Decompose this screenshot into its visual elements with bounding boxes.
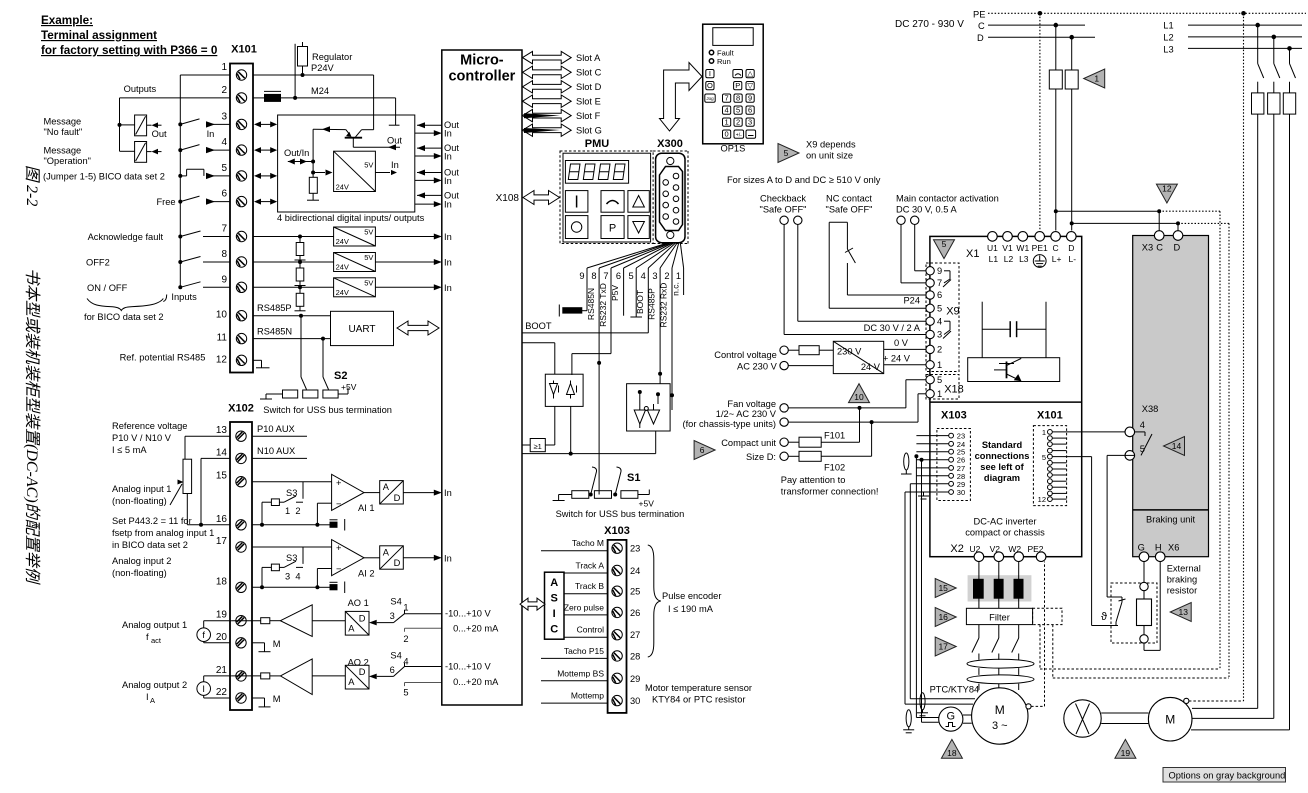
- callout 5 + note: [778, 144, 799, 163]
- svg-text:AC 230 V: AC 230 V: [737, 361, 778, 371]
- analog input 2 op-amp: [252, 546, 332, 548]
- svg-text:on unit size: on unit size: [806, 151, 853, 161]
- svg-text:5V: 5V: [364, 228, 373, 237]
- svg-text:Switch for USS bus termination: Switch for USS bus termination: [263, 405, 392, 415]
- svg-text:P: P: [735, 81, 740, 90]
- X101r pin 1: [1048, 430, 1053, 435]
- svg-text:Compact unit: Compact unit: [721, 438, 776, 448]
- X300 dashed outline: [653, 150, 688, 152]
- PTC wires to motor: [910, 698, 975, 700]
- svg-text:L1: L1: [1163, 21, 1173, 31]
- wire 5 ground: [635, 268, 637, 317]
- X103 pin 29: [949, 481, 954, 486]
- svg-text:Run: Run: [717, 57, 731, 66]
- X101 pin 4: [236, 145, 246, 155]
- svg-text:In: In: [391, 160, 399, 170]
- svg-text:X6: X6: [1168, 543, 1179, 553]
- svg-text:3: 3: [221, 111, 227, 122]
- cap to chassis AI1: [317, 524, 329, 526]
- svg-text:A: A: [383, 547, 390, 557]
- NC contact wiring: [829, 221, 847, 223]
- svg-text:C: C: [1053, 243, 1059, 253]
- wire row14 to row16: [201, 457, 230, 459]
- svg-text:Control voltage: Control voltage: [714, 350, 777, 360]
- X101 pin 2: [236, 93, 246, 103]
- svg-text:9: 9: [748, 93, 752, 102]
- wires X103 left: [541, 550, 608, 552]
- svg-text:4: 4: [725, 105, 729, 114]
- svg-text:Size D:: Size D:: [746, 452, 776, 462]
- LEDs: [709, 50, 713, 54]
- X103 pin 24: [612, 565, 622, 575]
- svg-text:Out/In: Out/In: [284, 148, 309, 158]
- svg-text:5: 5: [784, 148, 789, 158]
- svg-text:see left of: see left of: [980, 462, 1024, 472]
- svg-text:M: M: [273, 694, 281, 704]
- svg-text:9: 9: [221, 274, 227, 285]
- svg-text:O: O: [707, 81, 713, 90]
- meter I: [197, 682, 211, 696]
- X38 switch: [1135, 431, 1145, 433]
- svg-text:X1: X1: [966, 248, 979, 260]
- X102 pin 20: [236, 638, 246, 648]
- checkback terminals: [780, 216, 788, 224]
- bidirectional I/O box: [278, 115, 415, 212]
- svg-text:书本型或装机装柜型装置(DC-AC)的配置举例: 书本型或装机装柜型装置(DC-AC)的配置举例: [23, 268, 41, 586]
- svg-text:Checkback: Checkback: [760, 194, 806, 204]
- svg-text:24 V: 24 V: [861, 362, 881, 372]
- X18 connector: [926, 375, 959, 400]
- svg-text:19: 19: [216, 610, 228, 621]
- svg-text:Tacho M: Tacho M: [572, 538, 604, 548]
- pull resistor: [312, 173, 314, 178]
- svg-text:In: In: [444, 283, 452, 293]
- svg-text:Slot A: Slot A: [576, 53, 601, 63]
- svg-text:In: In: [444, 488, 452, 498]
- svg-text:fsetp from analog input 1: fsetp from analog input 1: [112, 528, 214, 538]
- svg-text:Control: Control: [577, 625, 605, 635]
- svg-text:5V: 5V: [364, 278, 373, 287]
- X103 pin 30: [949, 490, 954, 495]
- svg-text:10: 10: [854, 392, 864, 402]
- svg-text:Jog: Jog: [706, 96, 714, 101]
- svg-text:Pay attention to: Pay attention to: [781, 475, 846, 485]
- svg-text:Standard: Standard: [982, 440, 1023, 450]
- svg-text:Mottemp: Mottemp: [571, 691, 604, 701]
- svg-text:2: 2: [937, 345, 942, 355]
- X103 pin 26: [949, 457, 954, 462]
- svg-text:D: D: [1174, 243, 1181, 253]
- svg-text:Track A: Track A: [576, 561, 605, 571]
- X103 pin 25: [612, 586, 622, 596]
- svg-text:X18: X18: [944, 384, 964, 396]
- svg-text:ϑ: ϑ: [1101, 611, 1107, 623]
- svg-text:4: 4: [1140, 420, 1145, 430]
- svg-text:In: In: [444, 176, 452, 186]
- M24 inductor: [253, 97, 264, 99]
- svg-text:D: D: [1068, 243, 1074, 253]
- M24 T-stub: [395, 123, 397, 125]
- svg-text:compact or chassis: compact or chassis: [965, 528, 1045, 538]
- X103 pin 28: [612, 651, 622, 661]
- bidir arrow: [258, 149, 273, 151]
- svg-text:F101: F101: [824, 431, 845, 441]
- X102 pin 14: [236, 453, 246, 463]
- svg-text:23: 23: [630, 544, 640, 554]
- svg-text:S1: S1: [627, 472, 640, 484]
- svg-text:Fan voltage: Fan voltage: [727, 399, 776, 409]
- svg-text:6: 6: [748, 105, 752, 114]
- svg-text:7: 7: [603, 271, 608, 281]
- svg-text:in BICO data set 2: in BICO data set 2: [112, 540, 188, 550]
- X102 pin 15: [236, 477, 246, 487]
- converter 5V/24V big: [313, 172, 325, 174]
- svg-text:For sizes A to D and DC ≥ 510: For sizes A to D and DC ≥ 510 V only: [727, 175, 881, 185]
- svg-text:P: P: [609, 223, 616, 235]
- svg-text:Mottemp BS: Mottemp BS: [557, 668, 604, 678]
- svg-text:Main contactor activation: Main contactor activation: [896, 194, 999, 204]
- X1 terminal C: [1051, 232, 1061, 242]
- X1 terminal D: [1067, 232, 1077, 242]
- braking unit gray box: [1133, 236, 1209, 557]
- power converter box: [930, 236, 1082, 556]
- svg-text:5V: 5V: [364, 253, 373, 262]
- switch input row y124.4: [178, 122, 182, 126]
- svg-text:M: M: [273, 639, 281, 649]
- X101r pin 9: [1048, 479, 1053, 484]
- coupling fan-motor: [1101, 712, 1148, 714]
- svg-text:PE1: PE1: [1032, 243, 1048, 253]
- X9 pin 5: [926, 304, 934, 312]
- G wires: [916, 717, 938, 719]
- D/A box AO2: [345, 665, 369, 689]
- svg-text:for factory setting with P366: for factory setting with P366 = 0: [41, 44, 218, 57]
- cap to chassis AI2: [317, 586, 329, 588]
- svg-text:Slot E: Slot E: [576, 97, 601, 107]
- X1 terminal U1: [988, 232, 998, 242]
- svg-text:5: 5: [937, 304, 942, 314]
- X101 connector dotted box: [1033, 426, 1066, 506]
- svg-text:M: M: [995, 703, 1005, 717]
- X101 pin 7: [236, 231, 246, 241]
- svg-text:-10...+10 V: -10...+10 V: [445, 609, 492, 619]
- svg-text:6: 6: [700, 445, 705, 455]
- svg-text:N10 AUX: N10 AUX: [257, 446, 295, 456]
- svg-text:G: G: [947, 711, 956, 723]
- svg-text:≥1: ≥1: [534, 442, 542, 451]
- svg-text:Slot G: Slot G: [576, 126, 602, 136]
- svg-text:controller: controller: [448, 69, 515, 85]
- svg-text:6: 6: [390, 665, 395, 675]
- X101 pin 12: [236, 355, 246, 365]
- optocoupler box 1: [522, 342, 555, 344]
- svg-text:Message: Message: [44, 146, 82, 156]
- svg-text:f: f: [146, 632, 149, 642]
- svg-text:Motor temperature sensor: Motor temperature sensor: [645, 683, 752, 693]
- svg-text:27: 27: [630, 630, 640, 640]
- X101r pin 12: [1048, 497, 1053, 502]
- svg-text:C: C: [978, 21, 985, 31]
- svg-text:2: 2: [221, 85, 227, 96]
- svg-text:A: A: [550, 577, 558, 589]
- svg-text:X103: X103: [604, 525, 630, 537]
- X103 pin 27: [612, 630, 622, 640]
- svg-text:PMU: PMU: [585, 138, 610, 150]
- PE dashed to right motor: [1184, 698, 1189, 703]
- UART box: [331, 311, 394, 345]
- svg-text:10: 10: [216, 310, 228, 321]
- svg-text:connections: connections: [975, 451, 1030, 461]
- long wire to opto2: [522, 453, 656, 455]
- svg-text:1/2~ AC 230 V: 1/2~ AC 230 V: [716, 409, 777, 419]
- svg-text:(non-floating): (non-floating): [112, 568, 167, 578]
- PE dotted vertical right: [1243, 13, 1245, 701]
- svg-text:AO 1: AO 1: [348, 598, 369, 608]
- svg-text:−: −: [336, 499, 341, 509]
- X101 pin 8: [236, 257, 246, 267]
- X103 connector dotted box: [937, 429, 971, 501]
- bidir arrow: [258, 201, 273, 203]
- callout 5 inside: [934, 240, 955, 259]
- out line: [352, 138, 354, 148]
- svg-text:In: In: [444, 129, 452, 139]
- svg-text:X108: X108: [496, 193, 520, 204]
- svg-text:P24V: P24V: [311, 63, 335, 73]
- PE dotted vertical to PE1: [1039, 13, 1041, 230]
- meter f: [197, 628, 211, 642]
- svg-text:S: S: [551, 593, 558, 605]
- svg-text:"Safe OFF": "Safe OFF": [760, 205, 807, 215]
- L wires into right motor: [1192, 707, 1258, 709]
- X102 pin 22: [236, 693, 246, 703]
- svg-text:DC-AC inverter: DC-AC inverter: [973, 517, 1036, 527]
- X101r pin 8: [1048, 473, 1053, 478]
- X102 pin 13: [236, 431, 246, 441]
- svg-text:Regulator: Regulator: [312, 52, 352, 62]
- svg-text:18: 18: [216, 576, 228, 587]
- motor phase wires U2 V2 W2: [978, 562, 980, 609]
- X101 pin 6: [236, 196, 246, 206]
- svg-text:21: 21: [216, 665, 228, 676]
- main contactor wires: [900, 225, 902, 283]
- svg-text:13: 13: [216, 425, 228, 436]
- svg-text:12: 12: [216, 354, 228, 365]
- svg-text:"No fault": "No fault": [44, 127, 83, 137]
- svg-text:M24: M24: [311, 86, 329, 96]
- DC option dashed loops: [1039, 625, 1041, 669]
- svg-text:S4: S4: [390, 597, 401, 607]
- P24/M24 stubs up: [294, 44, 296, 98]
- svg-text:L3: L3: [1019, 254, 1029, 264]
- X101 pin 3: [236, 119, 246, 129]
- svg-text:resistor: resistor: [1167, 586, 1197, 596]
- svg-text:Terminal assignment: Terminal assignment: [41, 29, 157, 42]
- IGBT inverter box: [968, 358, 1060, 382]
- X9 pin 6: [926, 291, 934, 299]
- svg-text:9: 9: [579, 271, 584, 281]
- svg-text:3: 3: [937, 330, 942, 340]
- input converter row y287.3: [253, 286, 334, 288]
- svg-text:1: 1: [676, 271, 681, 281]
- svg-text:20: 20: [216, 632, 228, 643]
- pulse encoder brace: [648, 545, 661, 657]
- svg-text:25: 25: [630, 587, 640, 597]
- svg-text:Out: Out: [152, 129, 167, 139]
- X102 pin 21: [236, 671, 246, 681]
- svg-text:L-: L-: [1069, 254, 1077, 264]
- X101 pin 9: [236, 282, 246, 292]
- main contactor terminals: [897, 216, 905, 224]
- optocoupler box 2: [627, 384, 671, 431]
- svg-text:7: 7: [725, 93, 729, 102]
- svg-text:L2: L2: [1163, 33, 1173, 43]
- svg-text:11: 11: [217, 333, 228, 344]
- svg-text:X101: X101: [231, 44, 257, 56]
- svg-text:for BICO data set 2: for BICO data set 2: [84, 312, 164, 322]
- svg-text:Slot C: Slot C: [576, 68, 602, 78]
- svg-text:Slot D: Slot D: [576, 82, 602, 92]
- svg-text:Track B: Track B: [575, 581, 604, 591]
- X103 pin 23: [949, 433, 954, 438]
- X9 pin 1: [926, 361, 934, 369]
- wire 2 RS232RxD: [671, 268, 673, 410]
- svg-text:D: D: [394, 558, 401, 568]
- wire 7 RS232TxD: [610, 268, 612, 354]
- svg-text:+ 24 V: + 24 V: [883, 354, 911, 364]
- svg-text:19: 19: [1121, 748, 1131, 758]
- svg-text:0...+20 mA: 0...+20 mA: [453, 677, 499, 687]
- svg-text:D: D: [977, 33, 984, 43]
- X102 pin 19: [236, 616, 246, 626]
- fuse F102: [788, 455, 799, 457]
- DC link capacitor: [981, 302, 983, 358]
- svg-text:+: +: [336, 478, 341, 488]
- transistor inside: [345, 137, 362, 139]
- X101r pin 6: [1048, 460, 1053, 465]
- svg-text:In: In: [207, 129, 215, 139]
- svg-text:Slot F: Slot F: [576, 111, 601, 121]
- svg-text:I: I: [202, 684, 205, 694]
- svg-text:+5V: +5V: [639, 499, 655, 509]
- microcontroller U1: [442, 50, 522, 705]
- svg-text:W1: W1: [1016, 243, 1029, 253]
- svg-text:6: 6: [221, 189, 227, 200]
- svg-text:"Safe OFF": "Safe OFF": [826, 205, 873, 215]
- X103 pin 26: [612, 607, 622, 617]
- svg-text:Message: Message: [44, 117, 82, 127]
- svg-text:I: I: [709, 69, 711, 78]
- X9 pin 3: [926, 330, 934, 338]
- svg-text:P10 AUX: P10 AUX: [257, 424, 295, 434]
- svg-text:L+: L+: [1052, 254, 1062, 264]
- X1 terminal PE1: [1035, 232, 1045, 242]
- svg-text:22: 22: [216, 687, 228, 698]
- svg-text:24V: 24V: [336, 237, 349, 246]
- svg-text:(Jumper 1-5) BICO data set 2: (Jumper 1-5) BICO data set 2: [43, 172, 165, 182]
- svg-text:UART: UART: [348, 324, 375, 335]
- svg-text:A: A: [348, 623, 355, 633]
- svg-text:4 bidirectional digital inputs: 4 bidirectional digital inputs/ outputs: [277, 213, 425, 223]
- svg-text:-10...+10 V: -10...+10 V: [445, 662, 492, 672]
- svg-text:C: C: [550, 624, 558, 636]
- svg-text:Set P443.2 = 11 for: Set P443.2 = 11 for: [112, 516, 192, 526]
- svg-text:In: In: [444, 152, 452, 162]
- verticals to G and M: [915, 456, 917, 717]
- svg-text:16: 16: [216, 514, 228, 525]
- bidir arrow: [258, 123, 273, 125]
- svg-text:13: 13: [1178, 607, 1188, 617]
- PMU buttons: [565, 191, 588, 213]
- svg-text:NC contact: NC contact: [826, 194, 872, 204]
- svg-text:5: 5: [942, 239, 947, 249]
- switch input row y150.1: [178, 148, 182, 152]
- svg-text:14: 14: [1172, 441, 1182, 451]
- svg-text:X9: X9: [946, 306, 959, 318]
- L1/L2/L3 contactor switches + fuses: [1257, 25, 1259, 64]
- callout 1: [1084, 69, 1105, 88]
- svg-text:PE: PE: [973, 10, 985, 20]
- svg-text:8: 8: [736, 93, 740, 102]
- X9 pin 9: [926, 267, 934, 275]
- svg-text:8: 8: [221, 249, 227, 260]
- X101r pin 10: [1048, 485, 1053, 490]
- X103 pin 30: [612, 695, 622, 705]
- svg-text:Switch for USS bus terminatio: Switch for USS bus termination: [556, 509, 685, 519]
- M ground row 22: [252, 697, 265, 699]
- X101r pin 4: [1048, 448, 1053, 453]
- svg-text:3 ~: 3 ~: [992, 720, 1008, 732]
- svg-text:Tacho P15: Tacho P15: [564, 646, 604, 656]
- svg-text:5: 5: [221, 163, 227, 174]
- svg-text:Inputs: Inputs: [171, 292, 197, 302]
- jumper row5: [178, 174, 182, 178]
- ground mottemp: [923, 492, 925, 496]
- svg-text:PTC/KTY84: PTC/KTY84: [930, 685, 980, 695]
- X300 pin fan-out: [587, 244, 666, 269]
- X9 pin 4: [926, 317, 934, 325]
- svg-text:Analog output 2: Analog output 2: [122, 680, 187, 690]
- svg-text:DC 30 V, 0.5 A: DC 30 V, 0.5 A: [896, 205, 957, 215]
- right motor M: [1148, 697, 1192, 741]
- gate &#8805;1 box: [522, 444, 530, 446]
- svg-text:29: 29: [630, 674, 640, 684]
- svg-text:5: 5: [1042, 453, 1046, 462]
- svg-text:Analog input 2: Analog input 2: [112, 556, 171, 566]
- OP1S panel: [703, 24, 764, 144]
- svg-text:I ≤ 5 mA: I ≤ 5 mA: [112, 445, 147, 455]
- X9 pin 7: [926, 279, 934, 287]
- dblarrow UART: [397, 321, 439, 335]
- svg-text:2: 2: [664, 271, 669, 281]
- svg-text:X103: X103: [941, 410, 967, 422]
- wire D to X3: [1070, 221, 1074, 225]
- svg-text:AO 2: AO 2: [348, 658, 369, 668]
- wire 1 n.c.: [683, 268, 685, 295]
- wire 6 P5V: [623, 268, 625, 316]
- svg-text:C: C: [1156, 243, 1163, 253]
- svg-text:f: f: [202, 630, 205, 640]
- svg-text:A: A: [150, 696, 155, 705]
- channel out/in arrows: [417, 172, 442, 174]
- svg-text:F102: F102: [824, 463, 845, 473]
- svg-text:AI 1: AI 1: [358, 503, 375, 513]
- svg-text:6: 6: [616, 271, 621, 281]
- svg-text:12: 12: [1038, 495, 1046, 504]
- X9 pin 2: [926, 345, 934, 353]
- fan: [1064, 700, 1101, 737]
- wire X101r pin5 to thermostat: [1052, 456, 1091, 458]
- svg-text:1 2: 1 2: [285, 506, 301, 516]
